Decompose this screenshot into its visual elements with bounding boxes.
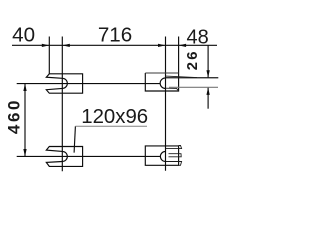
bracket top-right body rectangle <box>145 73 178 91</box>
svg-text:716: 716 <box>98 24 132 47</box>
extension line tick1 x=49.3 <box>48 37 50 75</box>
extension line tick2 x=62.3 <box>61 37 63 172</box>
arrow 716 right <box>158 44 166 47</box>
dimension line 26 lower segment <box>207 87 209 108</box>
dimension line 460 vertical <box>24 84 26 157</box>
arrow 460 up <box>23 84 26 92</box>
arrow 48 outside <box>179 44 187 47</box>
radiator edge line top (long) <box>165 77 218 79</box>
bottom-right prong bar2 (radiator tab) <box>169 154 182 157</box>
svg-text:48: 48 <box>186 27 208 49</box>
center line bottom row <box>17 155 161 157</box>
bracket bottom-left clamp <box>46 147 82 167</box>
bracket top-right rectangle top edge <box>145 72 178 74</box>
arrow 716 left <box>62 44 70 47</box>
dimension line 26 upper segment <box>207 45 209 77</box>
bottom-right prong bar1 <box>166 146 182 149</box>
svg-text:120x96: 120x96 <box>81 106 148 128</box>
bottom-right prong bar3 <box>166 162 182 166</box>
arrow 26 up <box>206 87 209 95</box>
top-right slot bottom edge <box>165 88 178 91</box>
dimension line top <box>12 44 217 46</box>
radiator edge line bottom (gray) <box>169 86 218 88</box>
extension line tick3 x=165.5 <box>165 37 167 171</box>
arrow 40 right <box>42 44 50 47</box>
center line top row <box>17 83 161 85</box>
extension line tick4 x=178.6 <box>178 37 180 74</box>
arrow 26 down <box>206 70 209 78</box>
bracket bottom-right clamp arc <box>160 151 165 161</box>
arrow 460 down <box>23 149 26 157</box>
underline of 120x96 label <box>75 125 147 127</box>
svg-text:40: 40 <box>12 24 35 47</box>
radiator wedge upper edge <box>166 76 197 78</box>
bracket top-left clamp <box>46 74 82 93</box>
svg-text:460: 460 <box>4 98 23 134</box>
leader line 120x96 <box>74 126 75 152</box>
arrowheads <box>23 44 209 157</box>
bracket top-right clamp arc <box>160 78 165 89</box>
svg-text:26: 26 <box>185 49 201 70</box>
bracket bottom-right body rectangle <box>145 146 178 165</box>
